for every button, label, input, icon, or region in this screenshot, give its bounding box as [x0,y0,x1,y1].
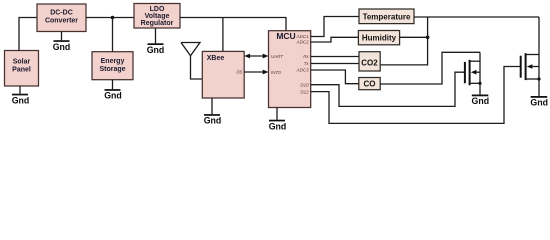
wire rail LDO to MCU power [180,18,286,31]
svg-text:D5: D5 [237,70,243,75]
block DC-DC Converter [37,4,86,32]
wire XBee power branch [222,18,224,52]
ground under Q1 [472,95,490,107]
svg-text:LDO: LDO [150,6,165,13]
svg-text:Gnd: Gnd [12,95,30,105]
svg-text:Gnd: Gnd [269,121,287,131]
svg-text:Tx: Tx [304,61,310,66]
svg-text:UART: UART [271,54,284,59]
transistor Q2 MOSFET [521,17,541,96]
svg-text:Temperature: Temperature [363,12,411,21]
svg-text:Energy: Energy [101,58,125,65]
wire Tx to CO2 sensor [311,63,359,65]
svg-text:D10: D10 [300,82,309,87]
junction node rail / energy storage [111,16,115,20]
wire UART bus XBee-MCU [244,54,268,59]
block Solar Panel [5,51,39,87]
block MCU U1 [269,31,311,108]
svg-text:Storage: Storage [99,66,125,73]
svg-text:DC-DC: DC-DC [50,10,73,17]
block XBee radio [202,51,244,98]
ground under XBee [204,98,222,126]
ground under energy storage [104,80,122,101]
svg-text:Gnd: Gnd [53,42,71,52]
block CO sensor [359,78,380,90]
wire humidity to junction [400,36,428,38]
block Temperature sensor [359,9,414,24]
junction node humidity/CO2 riser [426,36,430,40]
svg-text:Converter: Converter [45,18,78,25]
wire D12 to Q2 gate [311,67,520,124]
svg-text:Panel: Panel [12,67,31,74]
ground under MCU [269,108,287,132]
wire CO2 riser to temperature rail [380,17,427,65]
block Energy Storage [92,52,133,80]
svg-text:Gnd: Gnd [472,96,490,106]
wire ADC2 to humidity sensor [311,37,359,42]
svg-text:D12: D12 [300,89,309,94]
svg-text:Voltage: Voltage [145,13,170,20]
wire CO sensor to Q1 drain [380,52,480,84]
block LDO Voltage Regulator U3 [134,4,180,29]
wire energy storage branch [112,18,114,52]
svg-text:ADC1: ADC1 [296,34,310,39]
wire ADC1 to temperature sensor [311,17,359,37]
wire INT0 line XBee-MCU [244,70,268,75]
ground under solar panel [12,86,30,105]
svg-text:Rx: Rx [303,54,309,59]
svg-text:Gnd: Gnd [104,91,122,101]
svg-text:ADC2: ADC2 [296,40,310,45]
wire ADC3 to CO sensor [311,70,359,84]
svg-text:Humidity: Humidity [362,34,397,43]
svg-text:MCU: MCU [276,31,295,41]
wire solar panel to DC-DC converter [19,18,37,51]
wire Rx to CO2 sensor [311,56,359,58]
transistor Q1 MOSFET [465,52,482,94]
svg-text:INT0: INT0 [271,70,281,75]
ground under Q2 [530,96,548,108]
antenna [181,43,202,80]
wire temperature rail to Q2 drain [414,16,539,18]
svg-text:Gnd: Gnd [530,98,548,108]
svg-text:Gnd: Gnd [204,116,222,126]
block CO2 sensor [359,52,380,71]
svg-text:ADC3: ADC3 [296,68,310,73]
ground under DC-DC converter [53,32,71,52]
svg-text:Regulator: Regulator [141,20,174,27]
svg-text:Gnd: Gnd [147,45,165,55]
svg-text:XBee: XBee [207,55,225,62]
svg-text:CO: CO [364,80,376,89]
block Humidity sensor [358,31,399,45]
svg-text:CO2: CO2 [361,59,378,68]
wire rail DC-DC to LDO [86,17,134,19]
ground under LDO regulator [147,28,165,55]
wire D10 to Q1 gate [311,72,465,106]
svg-text:Solar: Solar [13,59,31,66]
